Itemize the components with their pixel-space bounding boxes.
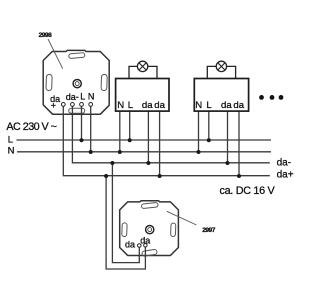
wire N bus (17, 151, 271, 153)
wire da ballast 1 to da- (147, 111, 149, 163)
svg-text:2998: 2998 (39, 32, 53, 39)
svg-text:da: da (140, 235, 150, 245)
wire stub L (81, 104, 83, 115)
wire da ballast 2 to da+ (238, 111, 240, 176)
svg-text:da-: da- (66, 92, 79, 102)
terminal N (89, 103, 93, 107)
junction da- feed (110, 161, 114, 165)
svg-text:da: da (154, 100, 165, 111)
terminal da+ (61, 103, 65, 107)
wire L from dimmer 2998 (81, 104, 83, 140)
svg-text:L: L (206, 100, 212, 111)
lamp wires 2 (207, 66, 235, 78)
svg-text:da: da (142, 100, 153, 111)
lamp wires 1 (129, 66, 157, 78)
wire stub da right (144, 245, 146, 256)
top fixing slot (141, 202, 158, 208)
terminal da right (144, 244, 148, 248)
box (116, 79, 169, 112)
knob (73, 80, 81, 88)
lamp E2 (216, 61, 226, 71)
wire stub da- (71, 104, 73, 115)
wire N ballast 2 (198, 111, 200, 152)
svg-text:da-: da- (277, 157, 291, 168)
wire L ballast 2 (208, 111, 210, 140)
wire stub da left (138, 246, 140, 257)
leader 2997 (167, 211, 197, 225)
box (194, 79, 248, 112)
wire da+ feed to potentiometer 2997 right terminal (106, 176, 145, 269)
terminal da- (71, 103, 75, 107)
junction da+ ballast 2 (237, 174, 241, 178)
svg-text:da+: da+ (277, 169, 294, 180)
svg-text:AC 230 V ~: AC 230 V ~ (6, 121, 56, 133)
junction da+ feed (104, 174, 108, 178)
bottom cable slot (142, 249, 158, 256)
svg-text:2997: 2997 (202, 227, 216, 234)
junction N ballast 2 (197, 150, 201, 154)
wire N from dimmer 2998 (90, 104, 92, 151)
ballast box 2 (194, 61, 248, 111)
wire da- feed to potentiometer 2997 left terminal (112, 163, 139, 263)
svg-text:N: N (117, 100, 124, 111)
junction da+ ballast 1 (158, 174, 162, 178)
knob (146, 226, 154, 234)
svg-text:da: da (233, 100, 244, 111)
wire da- bus from dimmer 2998 terminal da- (72, 104, 269, 162)
svg-text:N: N (195, 100, 202, 111)
wire L ballast 1 (129, 111, 131, 140)
lamp E1 (137, 61, 147, 71)
wire da+ bus from dimmer 2998 terminal da+ (63, 104, 269, 175)
leader 2998 (48, 39, 63, 69)
svg-text:L: L (80, 92, 85, 102)
junction N ballast 1 (118, 150, 122, 154)
wire L bus (17, 139, 272, 141)
terminal da left (138, 244, 142, 248)
wire stub da+ (62, 104, 64, 115)
svg-text:da: da (221, 100, 232, 111)
potentiometer U2 2997 body (120, 201, 179, 257)
junction da- ballast 2 (226, 161, 230, 165)
dimmer U1 2998 body (43, 50, 109, 115)
svg-text:N: N (8, 146, 15, 157)
top fixing slot (69, 53, 85, 59)
svg-text:L: L (128, 100, 134, 111)
junction L dimmer (80, 138, 84, 142)
left fixing slot (46, 74, 52, 90)
svg-text:L: L (8, 135, 13, 146)
left fixing slot (122, 223, 127, 237)
wire stub N (90, 104, 92, 115)
terminal L (80, 103, 84, 107)
wire N ballast 1 (119, 111, 121, 152)
wire da ballast 1 to da+ (159, 111, 161, 176)
right fixing slot (101, 74, 107, 90)
junction L ballast 1 (128, 138, 132, 142)
svg-text:ca. DC 16 V: ca. DC 16 V (220, 185, 276, 197)
ellipsis more ballasts (259, 95, 264, 100)
junction L ballast 2 (207, 138, 211, 142)
junction N dimmer (89, 150, 93, 154)
ballast box 1 (116, 61, 169, 111)
right fixing slot (171, 223, 176, 237)
junction da- ballast 1 (146, 161, 150, 165)
svg-text:da: da (125, 240, 135, 250)
bottom cable slot (69, 108, 85, 113)
wire da ballast 2 to da- (227, 111, 229, 163)
svg-text:N: N (88, 91, 95, 101)
svg-text:+: + (51, 101, 56, 111)
